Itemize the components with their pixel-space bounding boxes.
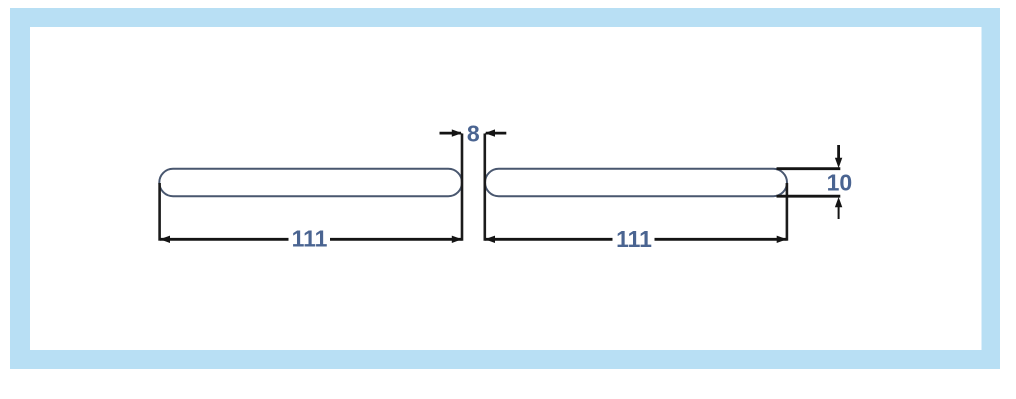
svg-text:8: 8: [467, 120, 480, 146]
svg-text:111: 111: [616, 226, 652, 252]
svg-text:111: 111: [292, 226, 328, 252]
svg-text:10: 10: [827, 170, 853, 196]
